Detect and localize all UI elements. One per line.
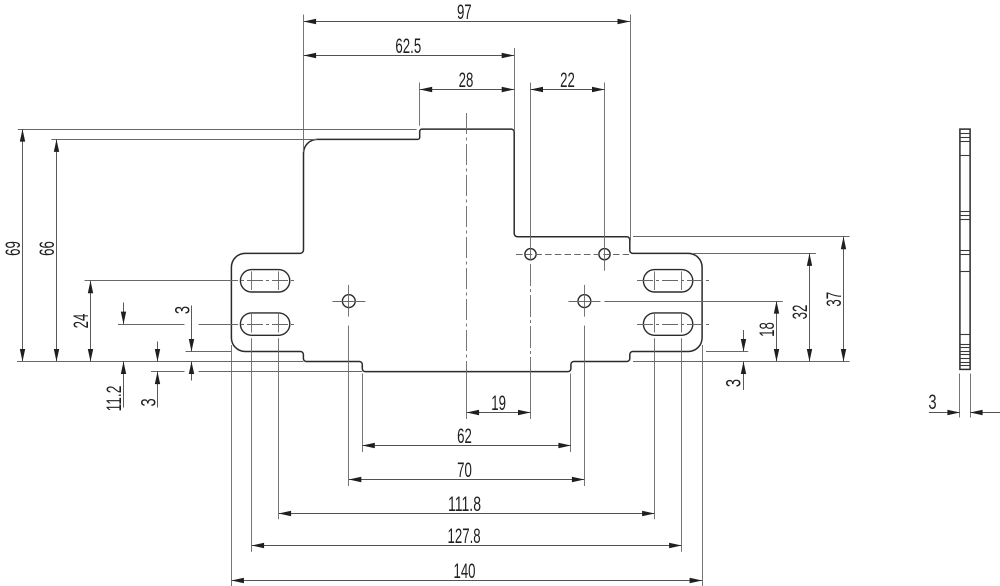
extension 28 left — [419, 83, 421, 126]
extension 111.8 left slot-arc — [278, 338, 280, 519]
dimension 140 — [231, 580, 702, 582]
svg-text:111.8: 111.8 — [448, 492, 481, 516]
extension 24 upper-slot — [85, 280, 223, 282]
dimension 18 — [776, 301, 778, 361]
hole top circle right — [599, 249, 610, 260]
extension 62 right — [570, 374, 572, 453]
hole right center circle — [578, 295, 591, 308]
dimension 24 — [90, 281, 92, 362]
extension 3 thickness — [959, 374, 961, 418]
svg-text:127.8: 127.8 — [448, 524, 481, 548]
dimension 69 — [22, 129, 24, 361]
extension central-bottom b — [199, 371, 363, 373]
svg-text:62: 62 — [457, 424, 472, 448]
svg-text:3: 3 — [136, 398, 160, 406]
slot hole upper-left — [240, 270, 289, 292]
hole left center circle — [342, 295, 355, 308]
slot hole upper-right — [643, 270, 692, 292]
svg-text:11.2: 11.2 — [102, 386, 126, 412]
extension 11.2 lower-slot b — [199, 324, 223, 326]
extension baseline left — [17, 361, 303, 363]
slot tick lower 127.8 left — [251, 314, 253, 333]
svg-text:37: 37 — [822, 292, 846, 307]
extension 111.8 right slot-arc — [654, 338, 656, 519]
hidden edge line behind tab — [516, 254, 629, 256]
extension 127.8 left slot-arc — [251, 338, 253, 552]
svg-text:3: 3 — [170, 306, 194, 314]
dimension 127.8 — [252, 545, 682, 547]
extension 37 tab22-top — [633, 236, 850, 238]
slot tick upper 111.8 right — [654, 271, 656, 290]
dimension 70 — [349, 479, 585, 481]
dimension 3 (ear bottom to baseline, right) — [743, 330, 745, 352]
slot tick upper 127.8 right — [681, 271, 683, 290]
svg-text:19: 19 — [491, 391, 506, 415]
extension 127.8 right slot-arc — [681, 338, 683, 552]
dimension 11.2 — [123, 303, 125, 325]
extension 11.2 lower-slot a — [118, 324, 185, 326]
extension baseline right — [633, 361, 850, 363]
dimension 97 — [304, 21, 630, 23]
dimension 3 (baseline to bottom) — [157, 342, 159, 362]
extension ear-bottom left — [186, 351, 232, 353]
extension 32 ear-top right — [692, 253, 816, 255]
dimension 32 — [809, 253, 811, 361]
hole top circle left — [525, 249, 536, 260]
dimension 37 — [843, 237, 845, 362]
slot centerline right — [637, 324, 712, 326]
slot tick lower 111.8 left — [278, 314, 280, 333]
dimension 22 — [531, 89, 605, 91]
svg-text:97: 97 — [457, 0, 472, 24]
dimension 3 (ear bottom to baseline, left) — [191, 306, 193, 352]
slot hole lower-left — [240, 313, 289, 335]
side view edge lines — [960, 133, 970, 135]
extension 66 top-left-edge — [51, 139, 317, 141]
extension 22 circle right — [604, 83, 606, 271]
extension 18 circle-center right — [604, 301, 782, 303]
extension 140 left — [231, 345, 233, 586]
svg-text:70: 70 — [457, 458, 472, 482]
extension ear-bottom right — [706, 351, 748, 353]
slot centerline left — [222, 324, 297, 326]
slot centerline right — [637, 280, 712, 282]
plate outline (front view) — [231, 129, 702, 372]
svg-text:18: 18 — [755, 322, 779, 337]
dimension 62 — [362, 445, 571, 447]
side view plate body — [960, 129, 970, 369]
slot tick upper 111.8 left — [278, 271, 280, 290]
svg-text:3: 3 — [928, 390, 936, 414]
extension 69 top-tab — [18, 129, 417, 131]
extension 97 right — [630, 15, 632, 241]
vertical centerline — [466, 113, 468, 373]
extension central-bottom a — [151, 371, 185, 373]
extension 62.5/28 right — [514, 48, 516, 131]
svg-text:66: 66 — [35, 241, 59, 256]
extension 97/62.5 left — [303, 15, 305, 153]
extension 62 left — [362, 374, 364, 453]
svg-text:28: 28 — [459, 68, 474, 92]
slot tick upper 127.8 left — [251, 271, 253, 290]
svg-text:22: 22 — [560, 68, 575, 92]
slot tick lower 127.8 right — [681, 314, 683, 333]
dimension 111.8 — [279, 513, 655, 515]
extension 22/19 circle left — [530, 83, 532, 261]
svg-text:140: 140 — [454, 559, 476, 583]
slot tick lower 111.8 right — [654, 314, 656, 333]
svg-text:69: 69 — [1, 241, 25, 256]
left circle cross — [333, 301, 366, 303]
slot hole lower-right — [643, 313, 692, 335]
dimension 3 (thickness) — [929, 412, 960, 414]
slot centerline left — [222, 280, 297, 282]
dimension 66 — [56, 139, 58, 361]
dimension 19 — [467, 412, 531, 414]
svg-text:24: 24 — [69, 314, 93, 329]
dimension 28 — [420, 89, 515, 91]
right circle cross — [569, 301, 601, 303]
svg-text:62.5: 62.5 — [395, 34, 421, 58]
dimension 62.5 — [304, 55, 515, 57]
svg-text:3: 3 — [722, 379, 746, 387]
extension 140 right — [702, 345, 704, 586]
svg-text:32: 32 — [788, 305, 812, 320]
